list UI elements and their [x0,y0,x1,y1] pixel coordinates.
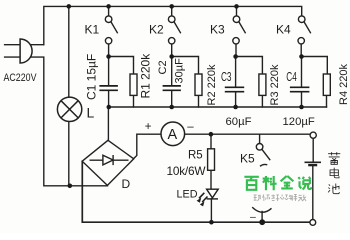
svg-text:C1 15µF: C1 15µF [85,54,99,100]
svg-text:R3 220k: R3 220k [269,64,281,105]
svg-text:AC220V: AC220V [4,72,38,84]
svg-text:C2: C2 [157,60,169,74]
svg-text:+: + [145,121,152,133]
svg-text:R5: R5 [188,150,203,162]
svg-text:C4: C4 [286,70,297,84]
svg-text:K5: K5 [240,152,255,166]
svg-text:D: D [122,177,131,191]
svg-text:120µF: 120µF [283,116,315,128]
svg-text:R2 220k: R2 220k [206,64,218,105]
svg-text:L: L [87,105,95,121]
svg-text:10k/6W: 10k/6W [167,164,207,178]
svg-text:A: A [167,127,177,143]
svg-text:LED: LED [177,188,198,200]
svg-text:30µF: 30µF [174,58,186,84]
svg-text:R4 220k: R4 220k [338,64,350,105]
svg-text:C3: C3 [221,70,232,84]
svg-text:K4: K4 [276,23,291,37]
svg-text:K2: K2 [149,23,164,37]
svg-text:K3: K3 [210,23,225,37]
svg-text:K1: K1 [85,23,100,37]
svg-text:60µF: 60µF [226,116,252,128]
svg-text:R1 220k: R1 220k [139,53,153,99]
svg-text:–: – [187,121,194,133]
svg-text:–: – [250,211,256,223]
